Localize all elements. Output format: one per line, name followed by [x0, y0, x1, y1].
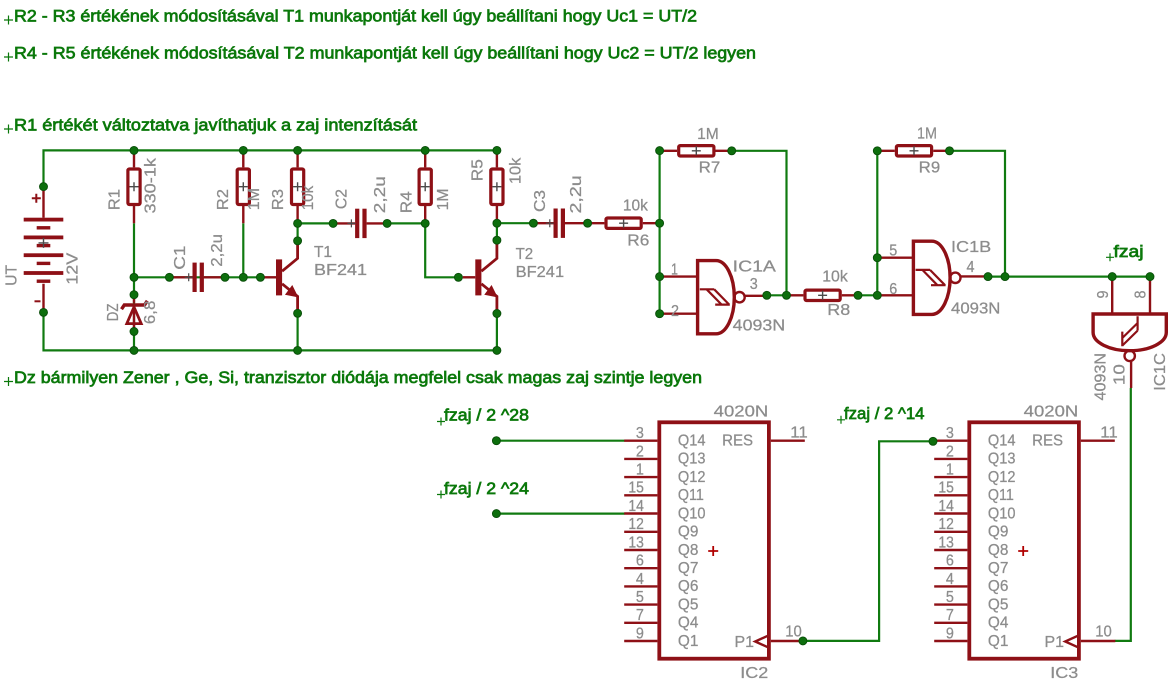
svg-text:P1: P1	[1045, 634, 1065, 651]
svg-text:R2 - R3 értékének módosításáva: R2 - R3 értékének módosításával T1 munka…	[14, 7, 697, 26]
wire R7 feedback	[732, 151, 787, 295]
wire R9 feedback	[950, 151, 1006, 277]
svg-text:11: 11	[790, 425, 808, 442]
junctions IC1A	[656, 273, 791, 318]
svg-text:R8: R8	[827, 302, 850, 319]
svg-text:5: 5	[636, 589, 644, 606]
wire IC2 P1 to IC3 pin3	[803, 441, 933, 641]
svg-text:11: 11	[1100, 425, 1118, 442]
svg-text:14: 14	[938, 498, 954, 515]
net label fzaj	[1106, 242, 1144, 261]
svg-text:R5: R5	[469, 159, 486, 181]
svg-text:Dz bármilyen Zener , Ge, Si, t: Dz bármilyen Zener , Ge, Si, tranzisztor…	[14, 368, 702, 387]
svg-text:fzaj: fzaj	[1114, 242, 1144, 261]
wire C1 row	[134, 276, 260, 278]
svg-text:Q10: Q10	[988, 505, 1016, 522]
svg-text:5: 5	[889, 242, 897, 259]
resistor R7	[660, 126, 732, 177]
svg-text:R9: R9	[919, 160, 941, 177]
svg-text:13: 13	[938, 534, 954, 551]
svg-text:IC1B: IC1B	[951, 239, 991, 256]
svg-text:4020N: 4020N	[1024, 403, 1079, 420]
wire IC1C out to IC3 P1	[1115, 388, 1131, 641]
transistor T1 BF241	[263, 241, 367, 314]
svg-text:7: 7	[946, 607, 954, 624]
svg-text:R1: R1	[107, 189, 124, 210]
svg-text:Q11: Q11	[988, 487, 1014, 504]
wire IC1B input column	[876, 151, 878, 295]
svg-text:Q12: Q12	[678, 469, 706, 486]
note text line 2	[4, 44, 756, 63]
resistor R8	[787, 269, 859, 320]
svg-text:4: 4	[636, 571, 644, 588]
svg-text:1M: 1M	[697, 126, 719, 143]
svg-text:13: 13	[628, 534, 644, 551]
svg-text:4093N: 4093N	[1093, 353, 1110, 401]
svg-text:3: 3	[946, 425, 954, 442]
svg-text:IC1C: IC1C	[1152, 353, 1169, 391]
svg-text:fzaj / 2 ^28: fzaj / 2 ^28	[444, 406, 529, 425]
wire C2 to R4	[387, 222, 425, 224]
svg-text:10: 10	[1095, 624, 1112, 641]
svg-text:4093N: 4093N	[733, 317, 786, 334]
svg-text:6: 6	[946, 553, 954, 570]
svg-text:10: 10	[785, 624, 802, 641]
junctions base row	[130, 273, 462, 281]
svg-text:Q7: Q7	[678, 560, 699, 577]
svg-text:Q6: Q6	[988, 578, 1009, 595]
svg-text:BF241: BF241	[516, 264, 565, 281]
svg-text:2,2u: 2,2u	[372, 176, 389, 213]
net label fzaj / 2 ^14	[837, 404, 925, 424]
svg-text:6: 6	[636, 553, 644, 570]
junctions counters	[492, 437, 937, 645]
svg-text:2,2u: 2,2u	[568, 175, 585, 213]
resistor R5	[469, 150, 524, 223]
svg-text:9: 9	[1095, 290, 1112, 298]
svg-text:C3: C3	[532, 190, 549, 212]
junctions transistors	[294, 236, 501, 317]
resistor R2	[215, 150, 263, 223]
junctions IC1B	[854, 254, 1009, 300]
svg-text:10: 10	[1112, 364, 1129, 385]
svg-text:1: 1	[946, 462, 954, 479]
svg-text:Q1: Q1	[678, 633, 699, 650]
svg-text:R4: R4	[399, 191, 416, 213]
svg-text:15: 15	[628, 480, 644, 497]
svg-text:6: 6	[889, 281, 897, 298]
wire IC1B output to IC1C	[988, 276, 1150, 278]
svg-text:P1: P1	[735, 634, 755, 651]
note text line 1	[4, 7, 697, 26]
wire T1 emitter to GND	[297, 313, 299, 350]
op-amp gate IC1C 4093N	[1093, 314, 1166, 388]
svg-text:Q5: Q5	[678, 596, 699, 613]
svg-text:DZ: DZ	[105, 303, 122, 321]
svg-text:Q6: Q6	[678, 578, 699, 595]
svg-text:Q4: Q4	[678, 615, 699, 632]
svg-text:2: 2	[671, 303, 679, 320]
svg-text:Q5: Q5	[988, 596, 1009, 613]
svg-text:1M: 1M	[435, 188, 452, 210]
wire IC1C pin8 drop	[1149, 277, 1151, 313]
svg-text:4093N: 4093N	[951, 300, 1000, 317]
junctions row 223	[294, 219, 664, 227]
svg-text:12V: 12V	[65, 252, 82, 284]
svg-text:12: 12	[628, 516, 644, 533]
svg-text:8: 8	[1132, 290, 1149, 298]
svg-text:2,2u: 2,2u	[209, 234, 226, 267]
note text line 3	[4, 116, 417, 135]
wire IC1A input column	[658, 151, 660, 314]
wire R1-DZ column	[133, 223, 135, 350]
resistor R3	[270, 150, 317, 223]
svg-text:15: 15	[938, 480, 954, 497]
junctions DZ	[130, 291, 138, 336]
resistor R6	[588, 198, 660, 250]
svg-text:Q11: Q11	[678, 487, 704, 504]
svg-text:Q4: Q4	[988, 615, 1009, 632]
svg-text:Q13: Q13	[988, 451, 1016, 468]
svg-text:T1: T1	[314, 244, 332, 261]
wire IC1A output	[767, 294, 787, 296]
resistor R9	[877, 126, 949, 177]
svg-text:Q14: Q14	[678, 433, 706, 450]
IC1A labels	[671, 259, 785, 335]
svg-text:1: 1	[636, 462, 644, 479]
wire fzaj/2^28 stub	[496, 440, 624, 442]
svg-text:RES: RES	[1032, 433, 1063, 450]
junctions feedback row	[656, 147, 954, 155]
svg-text:R4 - R5 értékének módosításáva: R4 - R5 értékének módosításával T2 munka…	[14, 44, 756, 63]
svg-text:IC2: IC2	[740, 665, 768, 680]
capacitor C3	[532, 175, 588, 238]
svg-text:Q8: Q8	[678, 542, 699, 559]
junctions top rail	[130, 146, 501, 154]
svg-text:10k: 10k	[508, 157, 525, 185]
svg-text:3: 3	[750, 276, 758, 293]
zener diode DZ 6,8	[105, 295, 159, 332]
wire IC1C pin9 drop	[1111, 277, 1113, 313]
svg-text:Q8: Q8	[988, 542, 1009, 559]
svg-text:Q14: Q14	[988, 433, 1016, 450]
svg-text:3: 3	[636, 425, 644, 442]
svg-text:T2: T2	[516, 246, 534, 263]
svg-text:1: 1	[671, 261, 678, 278]
svg-text:R3: R3	[270, 189, 287, 210]
svg-text:330-1k: 330-1k	[143, 157, 160, 214]
wire R3 to T1 collector	[297, 223, 299, 240]
svg-text:IC1A: IC1A	[733, 259, 777, 276]
svg-text:fzaj / 2 ^24: fzaj / 2 ^24	[444, 479, 529, 498]
wire R5 to C3	[497, 222, 534, 224]
svg-text:R1 értékét változtatva javítha: R1 értékét változtatva javíthatjuk a zaj…	[14, 116, 417, 135]
IC1B labels	[889, 239, 1000, 317]
wire fzaj/2^24 stub	[496, 512, 624, 514]
svg-text:2: 2	[946, 443, 954, 460]
svg-text:4: 4	[967, 259, 975, 276]
net label fzaj / 2 ^24	[437, 479, 529, 499]
svg-text:10k: 10k	[822, 269, 849, 286]
svg-text:10k: 10k	[300, 185, 317, 210]
resistor R4	[399, 150, 452, 223]
capacitor C1	[169, 234, 226, 292]
svg-text:IC3: IC3	[1050, 665, 1078, 680]
svg-text:12: 12	[938, 516, 954, 533]
svg-text:5: 5	[946, 589, 954, 606]
svg-text:Q12: Q12	[988, 469, 1016, 486]
junctions battery	[40, 183, 48, 317]
svg-text:Q13: Q13	[678, 451, 706, 468]
wire R8 out	[858, 294, 877, 296]
svg-text:10k: 10k	[623, 198, 649, 215]
svg-text:R7: R7	[699, 160, 721, 177]
svg-text:UT: UT	[4, 265, 21, 286]
IC1C labels	[1093, 290, 1170, 400]
net label fzaj / 2 ^28	[437, 406, 529, 426]
op-amp gate IC1B 4093N	[880, 241, 989, 314]
svg-text:Q9: Q9	[678, 524, 699, 541]
svg-text:9: 9	[636, 625, 644, 642]
IC IC3 4020N	[969, 422, 1079, 658]
svg-text:R2: R2	[215, 189, 232, 210]
svg-text:9: 9	[946, 625, 954, 642]
wire R3 to C2	[298, 222, 334, 224]
transistor T2 BF241	[463, 241, 565, 314]
svg-text:RES: RES	[722, 433, 753, 450]
wire R2 bottom	[242, 223, 244, 277]
svg-text:2: 2	[636, 443, 644, 460]
svg-text:C1: C1	[172, 246, 189, 270]
svg-text:R6: R6	[627, 233, 649, 250]
svg-text:Q7: Q7	[988, 560, 1009, 577]
svg-text:fzaj / 2 ^14: fzaj / 2 ^14	[844, 404, 925, 423]
svg-text:Q10: Q10	[678, 505, 706, 522]
svg-text:BF241: BF241	[314, 262, 367, 279]
junctions bottom rail	[130, 346, 501, 354]
svg-text:6,8: 6,8	[142, 301, 159, 325]
svg-text:1M: 1M	[917, 126, 937, 143]
wire VCC top rail	[44, 150, 497, 186]
wire R4 to T2 base	[425, 223, 458, 277]
capacitor C2	[333, 176, 389, 238]
svg-text:C2: C2	[334, 189, 351, 209]
wire R5 to T2 collector	[496, 223, 498, 240]
svg-text:4: 4	[946, 571, 954, 588]
resistor R1	[107, 150, 160, 223]
wire GND bottom rail	[44, 312, 497, 350]
svg-text:1M: 1M	[246, 188, 263, 210]
IC IC2 4020N	[659, 422, 769, 658]
note text line 4	[4, 368, 702, 387]
svg-text:14: 14	[628, 498, 644, 515]
svg-text:7: 7	[636, 607, 644, 624]
battery UT 12V	[4, 187, 82, 313]
svg-text:Q9: Q9	[988, 524, 1009, 541]
svg-text:Q1: Q1	[988, 633, 1009, 650]
op-amp gate IC1A 4093N	[661, 261, 766, 334]
svg-text:4020N: 4020N	[714, 403, 769, 420]
junctions IC1C in	[1108, 273, 1154, 281]
